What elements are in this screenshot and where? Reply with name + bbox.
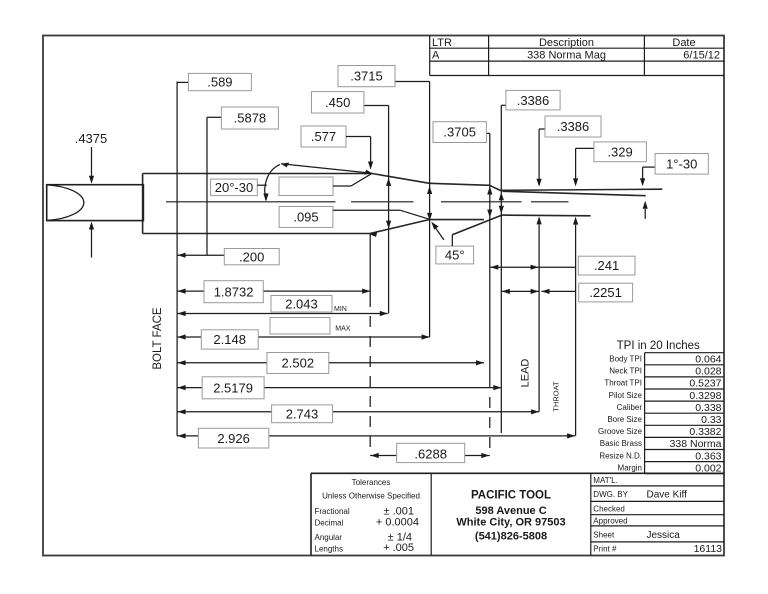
svg-text:Decimal: Decimal xyxy=(315,519,344,528)
svg-text:.3386: .3386 xyxy=(517,93,550,108)
svg-text:598 Avenue C: 598 Avenue C xyxy=(475,505,546,517)
dimension 2.043 MIN xyxy=(177,296,388,317)
dimension 2.5179 xyxy=(177,377,501,399)
leade taper line xyxy=(503,191,646,195)
svg-text:THROAT: THROAT xyxy=(552,381,561,412)
svg-text:.4375: .4375 xyxy=(75,131,108,146)
svg-text:.095: .095 xyxy=(293,210,318,225)
svg-text:2.5179: 2.5179 xyxy=(213,380,253,395)
dimension .095 leader xyxy=(279,207,429,228)
svg-text:.2251: .2251 xyxy=(589,285,622,300)
shank nose arc xyxy=(47,185,84,221)
svg-text:Jessica: Jessica xyxy=(647,530,681,541)
border frame xyxy=(43,36,724,556)
dimension .577 leader xyxy=(301,126,373,170)
empty MAX box xyxy=(270,318,351,335)
tolerances block xyxy=(315,478,420,554)
svg-text:1.8732: 1.8732 xyxy=(214,284,254,299)
svg-text:(541)826-5808: (541)826-5808 xyxy=(475,530,547,542)
svg-text:0.33: 0.33 xyxy=(701,414,722,426)
dimension .3705 with extension line xyxy=(433,122,492,457)
svg-text:Description: Description xyxy=(539,37,594,49)
dimension .3715 with extension line xyxy=(338,66,432,338)
svg-text:0.064: 0.064 xyxy=(695,354,721,366)
bolt face extension line xyxy=(176,82,178,436)
revision table (LTR / Description / Date) xyxy=(430,36,724,76)
svg-text:.6288: .6288 xyxy=(414,446,447,461)
dimension 45 degree leader xyxy=(431,222,473,264)
neck step to throat xyxy=(490,185,502,191)
dimension 1deg-30 leade angle xyxy=(640,154,708,219)
svg-text:LTR: LTR xyxy=(432,37,452,49)
dimension .200 xyxy=(177,249,279,265)
svg-text:Throat TPI: Throat TPI xyxy=(604,379,642,388)
neck bottom line xyxy=(430,219,484,221)
svg-text:0.363: 0.363 xyxy=(695,450,721,462)
svg-text:.450: .450 xyxy=(325,95,350,110)
svg-text:A: A xyxy=(432,50,440,62)
svg-text:2.043: 2.043 xyxy=(285,296,318,311)
drawing info block xyxy=(591,476,724,555)
svg-text:338 Norma: 338 Norma xyxy=(670,438,722,450)
svg-text:Fractional: Fractional xyxy=(315,507,350,516)
svg-text:Body TPI: Body TPI xyxy=(609,355,642,364)
svg-text:45°: 45° xyxy=(445,248,465,263)
title block outline xyxy=(311,473,724,555)
svg-text:.241: .241 xyxy=(594,258,619,273)
dimension .4375 shank diameter xyxy=(75,131,108,258)
dimension 2.148 xyxy=(177,330,430,349)
svg-text:Unless Otherwise Specified: Unless Otherwise Specified xyxy=(322,492,420,501)
svg-text:2.148: 2.148 xyxy=(213,332,246,347)
pilot top line xyxy=(501,189,662,190)
svg-text:Caliber: Caliber xyxy=(617,403,643,412)
svg-text:Checked: Checked xyxy=(593,505,625,514)
centerline xyxy=(166,201,569,203)
neck top line xyxy=(430,183,490,185)
svg-text:TPI in 20 Inches: TPI in 20 Inches xyxy=(617,340,700,352)
svg-text:Bore Size: Bore Size xyxy=(607,415,642,424)
svg-text:20°-30: 20°-30 xyxy=(215,180,253,195)
svg-text:BOLT FACE: BOLT FACE xyxy=(152,307,164,370)
dimension 2.502 xyxy=(177,353,484,374)
svg-text:MAX: MAX xyxy=(335,325,351,332)
svg-text:Resize N.D.: Resize N.D. xyxy=(599,451,642,460)
shoulder top line xyxy=(372,174,430,184)
svg-text:.200: .200 xyxy=(239,249,264,264)
dimension .450 with extension line xyxy=(312,92,392,314)
svg-text:PACIFIC TOOL: PACIFIC TOOL xyxy=(471,490,551,502)
svg-text:Approved: Approved xyxy=(593,517,627,526)
svg-text:0.028: 0.028 xyxy=(695,366,721,378)
svg-text:Dave Kiff: Dave Kiff xyxy=(647,490,688,501)
svg-text:0.5237: 0.5237 xyxy=(689,378,721,390)
svg-text:LEAD: LEAD xyxy=(520,359,532,388)
svg-text:.3386: .3386 xyxy=(557,119,590,134)
arrowhead at top shoulder junction done above; bottom shoulder junction arrowhead xyxy=(370,232,378,237)
svg-text:1°-30: 1°-30 xyxy=(666,156,697,171)
dimension .241 xyxy=(490,256,635,275)
svg-text:.589: .589 xyxy=(207,75,232,90)
svg-text:6/15/12: 6/15/12 xyxy=(683,50,720,62)
svg-text:2.502: 2.502 xyxy=(282,356,315,371)
dimension .2251 xyxy=(501,283,632,302)
svg-text:0.3382: 0.3382 xyxy=(689,426,721,438)
svg-text:.3715: .3715 xyxy=(350,69,383,84)
empty dimension box at shoulder xyxy=(279,174,371,196)
svg-text:Tolerances: Tolerances xyxy=(352,478,391,487)
svg-text:0.3298: 0.3298 xyxy=(689,390,721,402)
svg-text:+ .005: + .005 xyxy=(383,542,414,554)
svg-text:MIN: MIN xyxy=(334,306,347,313)
svg-text:DWG. BY: DWG. BY xyxy=(593,490,628,499)
shoulder bottom line xyxy=(370,220,430,234)
45 degree transition xyxy=(452,215,502,235)
svg-text:.3705: .3705 xyxy=(443,125,476,140)
dimension 2.743 xyxy=(177,405,539,423)
svg-text:Sheet: Sheet xyxy=(593,531,615,540)
svg-text:Margin: Margin xyxy=(618,463,642,472)
svg-text:MAT'L.: MAT'L. xyxy=(593,476,618,485)
dimension 2.926 xyxy=(177,428,575,448)
svg-text:338 Norma Mag: 338 Norma Mag xyxy=(527,50,606,62)
svg-text:2.743: 2.743 xyxy=(286,406,319,421)
reamer body outline xyxy=(142,174,144,234)
svg-text:0.338: 0.338 xyxy=(695,402,721,414)
dimension .5878 with extension line xyxy=(207,107,278,255)
svg-text:.577: .577 xyxy=(311,129,336,144)
svg-text:.329: .329 xyxy=(607,144,632,159)
svg-text:Groove Size: Groove Size xyxy=(598,427,643,436)
reamer shank xyxy=(47,185,144,221)
shoulder extension line (dashed gauge line) xyxy=(369,234,371,456)
svg-text:White City, OR 97503: White City, OR 97503 xyxy=(456,516,565,528)
svg-text:Lengths: Lengths xyxy=(315,545,343,554)
svg-text:.5878: .5878 xyxy=(234,111,267,126)
dimension .329 with extension line xyxy=(573,142,646,436)
throat bottom line xyxy=(503,214,591,217)
svg-text:Print #: Print # xyxy=(593,545,617,554)
svg-text:Neck TPI: Neck TPI xyxy=(609,367,642,376)
dimension .589 xyxy=(177,73,251,90)
dimension .6288 xyxy=(370,443,490,462)
dimension 1.8732 xyxy=(177,281,370,303)
dimension .3386 (second) with extension line xyxy=(537,116,602,412)
svg-text:Basic Brass: Basic Brass xyxy=(600,439,642,448)
svg-text:Angular: Angular xyxy=(315,533,343,542)
svg-text:+ 0.0004: + 0.0004 xyxy=(376,517,419,529)
dimension .3386 (first) with extension line xyxy=(499,90,560,433)
svg-text:Pilot Size: Pilot Size xyxy=(609,391,643,400)
svg-text:2.926: 2.926 xyxy=(217,431,250,446)
company block PACIFIC TOOL xyxy=(456,490,565,543)
svg-text:Date: Date xyxy=(672,37,695,49)
TPI table xyxy=(598,340,724,474)
svg-text:16113: 16113 xyxy=(694,543,723,555)
dimension 20deg-30 shoulder angle xyxy=(211,163,372,202)
